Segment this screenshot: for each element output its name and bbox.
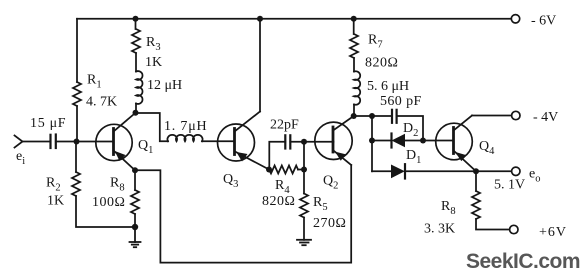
resistor R8 3.3K: [424, 171, 480, 236]
capacitor 22pF: [270, 118, 299, 149]
wire D1 left: [372, 170, 391, 172]
transistor Q1: [96, 113, 154, 171]
node C3 D-column junction: [369, 113, 375, 119]
svg-text:R7: R7: [368, 33, 383, 51]
resistor R5: [300, 170, 346, 232]
svg-text:12 μH: 12 μH: [147, 78, 182, 93]
inductor 5.6uH: [354, 71, 409, 105]
wire L1 to collector node: [135, 104, 137, 113]
svg-text:100Ω: 100Ω: [92, 195, 125, 210]
node Q2 collector junction: [351, 113, 357, 119]
input terminal e_i: [15, 136, 26, 168]
svg-text:R1: R1: [87, 73, 102, 91]
resistor R2: [46, 172, 80, 209]
svg-text:5. 6 μH: 5. 6 μH: [367, 79, 409, 94]
svg-text:1. 7μH: 1. 7μH: [164, 119, 207, 134]
svg-text:R2: R2: [46, 176, 61, 194]
svg-text:- 6V: - 6V: [531, 14, 556, 29]
wire C1 to Q1 base: [56, 141, 114, 143]
node R7 rail junction: [351, 16, 357, 22]
svg-text:820Ω: 820Ω: [262, 194, 295, 209]
transistor Q3: [218, 112, 270, 191]
wire Q3 emitter node up to C2: [269, 142, 285, 170]
wire node down to R2: [75, 142, 77, 173]
svg-text:R5: R5: [313, 195, 328, 213]
svg-text:Q1: Q1: [138, 138, 153, 156]
wire L2 to Q3 base: [202, 140, 235, 142]
wire Q3 collector to rail: [259, 19, 261, 112]
node Q4 emitter junction: [473, 168, 479, 174]
svg-text:eo: eo: [529, 167, 540, 185]
wire R8 to ground node: [134, 214, 136, 227]
svg-text:ei: ei: [16, 149, 25, 167]
node D2 left junction: [369, 138, 375, 144]
inductor 12uH: [136, 71, 182, 104]
wire C3 right down to D2 row: [397, 116, 423, 141]
svg-text:4. 7K: 4. 7K: [86, 95, 117, 110]
svg-text:Q4: Q4: [479, 139, 495, 157]
terminal +6V: [510, 225, 567, 240]
svg-text:1K: 1K: [145, 55, 162, 70]
svg-text:R8: R8: [441, 199, 456, 217]
svg-text:1K: 1K: [47, 194, 64, 209]
wire collector node to C3 row: [354, 115, 392, 117]
resistor R1: [73, 73, 117, 110]
node Q3 collector rail junction: [257, 16, 263, 22]
transistor Q2: [315, 116, 354, 192]
node Q4 base junction: [420, 138, 426, 144]
wire left drop from rail to R1: [76, 19, 78, 82]
node input junction: [74, 139, 80, 145]
wire D1 to output node: [405, 170, 512, 172]
wire top supply rail: [77, 18, 511, 20]
wire L3 to Q2 collector node: [353, 105, 355, 117]
transistor Q4: [436, 116, 495, 172]
wire input to C1: [23, 141, 51, 143]
wire collector node to L2: [136, 113, 169, 141]
wire R4 to node: [298, 169, 304, 171]
ground under R8: [130, 227, 141, 247]
wire Q1 emitter loop to Q2 emitter (bottom rail): [135, 165, 351, 263]
wire R1 to input node: [76, 106, 78, 142]
wire R7 to L3: [353, 58, 355, 72]
svg-text:3. 3K: 3. 3K: [424, 222, 455, 237]
node Q1 emitter junction: [132, 167, 138, 173]
wire base node to Q4: [423, 140, 454, 142]
capacitor 15uF: [30, 116, 66, 148]
ground under R5: [297, 240, 311, 245]
node Q3 emitter junction: [266, 167, 272, 173]
svg-text:5. 1V: 5. 1V: [494, 178, 525, 193]
svg-text:R8: R8: [110, 176, 125, 194]
capacitor 560pF: [380, 94, 422, 123]
wire Q4 collector to -4V: [472, 115, 512, 117]
svg-text:820Ω: 820Ω: [365, 56, 398, 71]
resistor R8 100ohm: [92, 170, 139, 214]
node R4 R5 junction: [301, 167, 307, 173]
node ground junction: [132, 224, 138, 230]
node Q2 base junction: [301, 139, 307, 145]
svg-text:R3: R3: [146, 35, 161, 53]
wire D2 right to Q4 base node: [405, 140, 423, 142]
svg-text:D1: D1: [406, 148, 421, 166]
svg-text:D2: D2: [403, 121, 418, 139]
svg-text:SeekIC.com: SeekIC.com: [466, 250, 580, 273]
terminal -6V: [511, 14, 556, 29]
node R3 rail junction: [133, 16, 139, 22]
wire R2 bottom to ground node: [76, 196, 135, 227]
svg-text:15 μF: 15 μF: [30, 116, 66, 131]
svg-text:- 4V: - 4V: [533, 110, 558, 125]
svg-text:22pF: 22pF: [270, 118, 299, 133]
inductor 1.7uH: [164, 119, 207, 141]
wire R3 to L1: [135, 53, 137, 72]
svg-text:Q3: Q3: [223, 172, 238, 190]
svg-text:+6V: +6V: [539, 225, 567, 240]
wire D2 left: [372, 140, 392, 142]
diode D2: [392, 121, 419, 148]
wire R5 to ground: [303, 218, 305, 240]
resistor R7: [350, 19, 398, 71]
node Q1 collector junction: [133, 110, 139, 116]
wire D column vertical: [371, 116, 373, 171]
terminal e_o: [494, 167, 540, 193]
resistor R3: [132, 19, 162, 70]
wire R8 to +6V terminal: [476, 219, 510, 230]
svg-text:Q2: Q2: [323, 174, 338, 192]
terminal -4V: [512, 110, 559, 125]
resistor R4: [262, 166, 298, 210]
wire base node down to R4 node: [303, 142, 305, 170]
diode D1: [391, 148, 421, 179]
svg-text:270Ω: 270Ω: [313, 216, 346, 231]
svg-text:560 pF: 560 pF: [380, 94, 422, 109]
wire C2 to Q2 base: [290, 141, 333, 143]
